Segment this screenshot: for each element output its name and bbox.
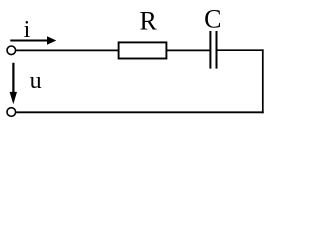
wire: capacitor C to right corner xyxy=(218,49,264,51)
svg-text:i: i xyxy=(24,17,31,43)
svg-text:C: C xyxy=(204,4,221,33)
node: top input terminal xyxy=(7,46,16,55)
current arrow i xyxy=(10,36,56,44)
capacitor C xyxy=(210,31,216,69)
voltage arrow u xyxy=(10,63,17,105)
wire: bottom return to bottom terminal xyxy=(16,111,264,113)
wire: resistor R to capacitor C xyxy=(167,49,210,51)
svg-text:u: u xyxy=(30,68,42,94)
resistor R xyxy=(119,42,167,58)
node: bottom input terminal xyxy=(7,108,16,117)
svg-text:R: R xyxy=(140,7,158,36)
wire: right vertical segment xyxy=(262,49,264,113)
wire: top terminal to resistor R xyxy=(16,49,119,51)
